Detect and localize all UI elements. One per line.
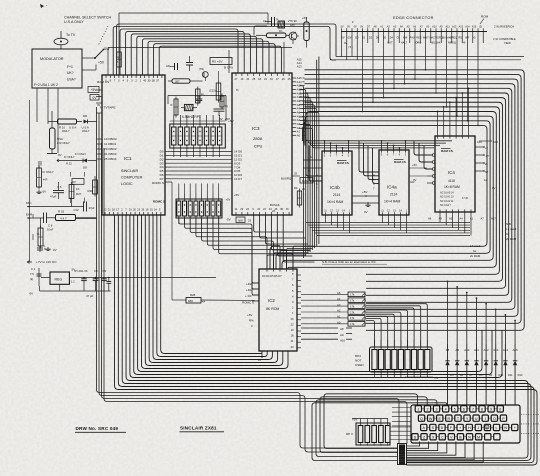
svg-text:A11: A11 (446, 25, 451, 28)
wire RAM top feeds (324, 87, 470, 151)
svg-text:A10: A10 (493, 140, 498, 144)
svg-text:C 8: C 8 (48, 224, 53, 228)
svg-text:A: A (373, 173, 375, 177)
svg-text:29 KBD2: 29 KBD2 (104, 147, 117, 151)
svg-text:WAIT: WAIT (423, 37, 430, 40)
svg-text:1K×8 RAM: 1K×8 RAM (444, 185, 460, 189)
svg-text:H: H (468, 426, 471, 430)
svg-text:R 12: R 12 (66, 162, 72, 166)
crystal label (182, 115, 201, 119)
svg-text:D8: D8 (479, 373, 483, 377)
keyboard outline (411, 405, 520, 443)
IC3 bottom labels (226, 217, 252, 223)
resistor pack RP1 upper (170, 115, 235, 157)
wire IC1 left stubs (96, 90, 115, 113)
svg-text:R%: R% (249, 319, 254, 323)
node staircase labels (297, 57, 302, 68)
svg-text:(k): (k) (30, 277, 33, 281)
svg-text:2 1K COMPATIBLE: 2 1K COMPATIBLE (493, 37, 516, 41)
svg-text:6.5MHZ RP1: 6.5MHZ RP1 (182, 115, 201, 119)
svg-text:A14: A14 (297, 61, 302, 65)
diode D9 (82, 114, 97, 133)
capacitor C5 (75, 269, 89, 291)
svg-text:A4: A4 (337, 297, 341, 301)
svg-text:6: 6 (463, 408, 465, 412)
svg-text:NMI: NMI (403, 37, 408, 40)
svg-text:(C15): (C15) (209, 89, 216, 93)
svg-text:C9: C9 (103, 269, 107, 273)
svg-text:IC4b: IC4b (330, 185, 340, 190)
wire connector drops (342, 35, 484, 126)
wire osc to IC3 (226, 13, 284, 121)
IC2 right pins (297, 275, 301, 348)
svg-text:0V: 0V (53, 248, 57, 252)
svg-text:A5: A5 (449, 217, 453, 221)
wire RP1 verticals (174, 157, 220, 193)
svg-text:A9: A9 (455, 348, 459, 352)
svg-text:IN: IN (97, 103, 100, 107)
resistor R33 (56, 210, 97, 221)
svg-text:4118: 4118 (448, 179, 455, 183)
resistor R28 (186, 293, 205, 303)
transistor Q1 (199, 68, 208, 81)
wire 5V rail (336, 56, 524, 58)
svg-text:R 33: R 33 (58, 210, 64, 214)
svg-text:F+2 USA 1 UK 2: F+2 USA 1 UK 2 (34, 83, 58, 87)
edge connector (340, 16, 487, 49)
svg-text:L: L (496, 426, 498, 430)
svg-text:R9: R9 (294, 186, 298, 190)
svg-text:MREQ: MREQ (450, 37, 457, 40)
svg-text:47 µF: 47 µF (86, 294, 94, 298)
regulator REG (41, 272, 69, 284)
svg-text:REG: REG (55, 278, 63, 282)
svg-text:To TV: To TV (66, 33, 76, 37)
svg-text:11 KBD1: 11 KBD1 (104, 142, 116, 146)
svg-text:NC 16 A0 14: NC 16 A0 14 (440, 192, 454, 195)
svg-text:J: J (477, 426, 479, 430)
svg-text:17k: 17k (350, 293, 355, 297)
svg-text:9V: 9V (347, 25, 350, 28)
wire IC4 left feeds (414, 141, 432, 169)
svg-text:D11: D11 (508, 373, 513, 377)
resistor R27 (69, 179, 84, 202)
node MIC input (26, 201, 84, 207)
svg-text:ONLY: ONLY (82, 129, 90, 133)
wire modulator leads (37, 88, 58, 153)
node A8-A0 labels (301, 327, 352, 342)
svg-text:0V: 0V (364, 210, 368, 214)
svg-text:IC2: IC2 (268, 298, 275, 303)
resistor R1 (168, 79, 203, 84)
node BUSAK (270, 203, 280, 213)
node 5V out (69, 267, 216, 283)
wire control bus staircase (113, 24, 336, 75)
svg-text:U.S.A ONLY: U.S.A ONLY (64, 20, 84, 24)
svg-text:A14: A14 (503, 348, 509, 352)
svg-text:U: U (475, 417, 478, 421)
channel select switch note (64, 16, 112, 47)
svg-text:USA?: USA? (67, 78, 76, 82)
svg-text:D: D (441, 426, 444, 430)
svg-text:RAM CS: RAM CS (337, 161, 349, 165)
crystal X2 (278, 21, 285, 33)
svg-text:10nF: 10nF (47, 228, 54, 232)
capacitor C17 (166, 63, 178, 70)
svg-text:IC4: IC4 (448, 170, 455, 175)
svg-text:NOT: NOT (355, 359, 362, 363)
svg-text:17k: 17k (350, 304, 355, 308)
svg-text:.: . (487, 435, 488, 439)
wire osc link (168, 96, 226, 105)
svg-text:BUSAK: BUSAK (302, 179, 311, 183)
wire kbd top columns (312, 394, 447, 461)
svg-text:0V: 0V (354, 25, 357, 28)
svg-text:R: R (171, 103, 173, 107)
svg-text:17k: 17k (350, 316, 355, 320)
svg-text:RES: RES (416, 37, 421, 40)
capacitor C18 (186, 56, 193, 71)
svg-text:IC4a: IC4a (387, 185, 397, 190)
svg-text:RAM CS: RAM CS (394, 160, 406, 164)
svg-text:17k: 17k (350, 310, 355, 314)
svg-text:C12: C12 (74, 208, 80, 212)
wire diode feeds (447, 280, 516, 344)
svg-text:0V: 0V (360, 25, 363, 28)
wire data bus IC1-IC3 (171, 152, 232, 179)
modulator (32, 49, 82, 88)
svg-text:HI: HI (463, 41, 466, 45)
op-amp IC1 Sinclair Computer Logic (97, 75, 165, 215)
svg-text:8K ROM: 8K ROM (266, 307, 279, 311)
note NB 17 used (506, 222, 517, 241)
svg-text:U S A: U S A (69, 125, 76, 129)
resistor R10 (48, 119, 82, 133)
wire keyboard left feeds (392, 408, 411, 426)
wire RAM bottom bus (304, 212, 472, 258)
svg-text:4 4 7: 4 4 7 (60, 216, 67, 220)
capacitor C9 (101, 269, 107, 291)
svg-text:A14: A14 (465, 25, 470, 28)
svg-text:+D1: +D1 (246, 288, 252, 292)
svg-text:2: 2 (426, 408, 428, 412)
svg-text:IC1: IC1 (124, 156, 132, 162)
svg-text:+ D0: + D0 (245, 294, 252, 298)
svg-text:+D2: +D2 (246, 282, 252, 286)
wire low address to RAM feeds (300, 117, 453, 148)
svg-text:EDGE CONNECTOR: EDGE CONNECTOR (393, 16, 434, 20)
svg-text:+7V to 11V DC: +7V to 11V DC (36, 260, 57, 264)
svg-text:A8: A8 (340, 327, 344, 331)
svg-text:A17: A17 (491, 217, 496, 221)
switch SW1 (82, 47, 110, 70)
svg-text:B CPU: B CPU (224, 66, 233, 70)
svg-text:IC3: IC3 (252, 126, 260, 132)
svg-text:S: S (310, 155, 312, 159)
svg-text:A7: A7 (481, 217, 485, 221)
resistor R29 (88, 176, 98, 197)
resistor R7 (117, 50, 122, 70)
wire IC4a-IC4 links (409, 163, 427, 182)
op-amp IC4b RAM (322, 151, 352, 215)
transistor Q2 (289, 32, 299, 44)
svg-text:A8: A8 (428, 217, 432, 221)
wire long A verticals (317, 57, 319, 113)
svg-text:31 KBD3: 31 KBD3 (104, 152, 117, 156)
coax to TV (54, 31, 76, 49)
svg-text:A15: A15 (472, 25, 477, 28)
svg-text:A13: A13 (459, 25, 464, 28)
svg-text:R½ R11 C6: R½ R11 C6 (75, 269, 89, 273)
resistor pack RP2 not used (355, 340, 439, 380)
IC1 data pins (160, 150, 171, 181)
svg-text:17k: 17k (350, 299, 355, 303)
svg-text:NC 9 A3 7: NC 9 A3 7 (440, 204, 452, 207)
svg-text:D3 D4 D5 D6 D7: D3 D4 D5 D6 D7 (262, 274, 282, 278)
wire keyboard column drops (407, 442, 484, 463)
wire RP3 to keyboard (390, 427, 411, 440)
svg-text:A10: A10 (477, 140, 482, 144)
svg-text:C: C (441, 435, 444, 439)
svg-text:ROMC S: ROMC S (242, 301, 254, 305)
svg-text:F+1: F+1 (67, 65, 73, 69)
svg-text:0V: 0V (413, 178, 417, 182)
svg-text:0V: 0V (492, 186, 496, 190)
svg-text:+5V: +5V (362, 190, 367, 194)
svg-text:4: 4 (445, 408, 447, 412)
wire right bus bundle (270, 70, 524, 330)
svg-text:RP2: RP2 (355, 354, 361, 358)
svg-text:% TVTAPE: % TVTAPE (100, 106, 115, 110)
svg-text:N.B.: N.B. (506, 222, 512, 226)
svg-text:DRW No. SRC 049: DRW No. SRC 049 (76, 426, 119, 431)
svg-text:A8: A8 (446, 348, 450, 352)
IC2 bottom pin (258, 351, 262, 362)
svg-text:0V: 0V (30, 292, 34, 296)
svg-text:D6: D6 (460, 373, 464, 377)
svg-text:A1: A1 (297, 130, 301, 134)
node EAR input (26, 213, 44, 219)
node +5V label (88, 87, 99, 93)
svg-text:+5V: +5V (91, 88, 98, 92)
resistor pack RP3 (346, 418, 390, 446)
svg-text:M: M (477, 435, 480, 439)
svg-text:A9: A9 (439, 217, 443, 221)
svg-text:A5: A5 (337, 291, 341, 295)
node RAM bottom labels (428, 217, 496, 221)
svg-text:NC 15 A1 13: NC 15 A1 13 (440, 196, 454, 199)
svg-text:C 1: C 1 (31, 267, 36, 271)
capacitor C8 (93, 269, 99, 291)
resistor R3 (196, 87, 205, 106)
svg-text:A2: A2 (297, 126, 301, 130)
svg-text:%: % (236, 88, 239, 92)
svg-text:R5 +5V: R5 +5V (212, 60, 223, 64)
wire left links (33, 151, 97, 240)
svg-text:1: 1 (417, 408, 419, 412)
svg-text:0V: 0V (341, 37, 344, 40)
capacitor C16 (263, 17, 279, 26)
svg-text:N: N (504, 426, 507, 430)
svg-text:.: . (496, 435, 497, 439)
svg-text:BUSAK: BUSAK (270, 203, 280, 207)
svg-text:DR: DR (83, 114, 87, 118)
resistor pack RP1 lower (176, 193, 230, 224)
svg-text:O: O (493, 417, 496, 421)
svg-text:BUT: BUT (387, 41, 393, 45)
svg-text:S?: S? (485, 170, 489, 174)
svg-text:A3: A3 (337, 303, 341, 307)
svg-text:Fr ONLY: Fr ONLY (64, 155, 75, 159)
resistor R11 USA only (47, 111, 70, 157)
crystal X1 (181, 104, 197, 110)
svg-text:1K×4 RAM: 1K×4 RAM (327, 200, 344, 204)
keyboard row tails (485, 415, 539, 434)
svg-text:+: + (514, 426, 516, 430)
svg-text:RAM CS: RAM CS (441, 149, 453, 153)
svg-text:A10: A10 (464, 348, 470, 352)
keyboard connector (398, 444, 407, 465)
svg-text:ROMC S: ROMC S (152, 181, 164, 185)
op-amp IC2 ROM (259, 269, 297, 351)
svg-text:267: 267 (175, 79, 180, 83)
title DRW number (75, 426, 126, 432)
svg-text:C1: C1 (263, 19, 267, 23)
svg-text:+5V: +5V (228, 119, 235, 123)
svg-text:+: + (459, 426, 461, 430)
svg-text:R29: R29 (88, 189, 94, 193)
svg-text:-2?: -2? (485, 154, 489, 158)
svg-text:A10: A10 (340, 338, 346, 342)
IC1 ROM CS stub (152, 181, 172, 203)
svg-text:%: % (37, 232, 40, 236)
svg-text:2k RAM: 2k RAM (470, 254, 481, 258)
svg-text:+5V: +5V (352, 418, 357, 422)
capacitor C1 (30, 267, 42, 286)
capacitor C12 (74, 202, 96, 215)
wire kbd column lines (102, 143, 408, 444)
wire ROM CS route (172, 182, 259, 301)
capacitor C6 (50, 182, 64, 199)
svg-text:180: 180 (290, 23, 295, 27)
wire +5V rail 2 (108, 48, 292, 76)
svg-text:43p: 43p (166, 64, 171, 68)
svg-text:D7: D7 (469, 373, 473, 377)
svg-text:10 KBD0: 10 KBD0 (104, 137, 117, 141)
wire rom data staircase (179, 218, 293, 295)
svg-text:A3: A3 (297, 122, 301, 126)
svg-text:for: for (473, 249, 476, 253)
svg-text:Rn: Rn (279, 29, 283, 33)
svg-text:R27: R27 (76, 192, 82, 196)
svg-text:A13: A13 (297, 65, 302, 69)
svg-text:A0: A0 (297, 133, 301, 137)
svg-text:USED: USED (355, 363, 364, 367)
IC3 address stubs (292, 76, 305, 137)
capacitor C13 (44, 213, 56, 232)
svg-text:MODULATOR: MODULATOR (40, 57, 64, 61)
svg-text:(5): (5) (479, 25, 482, 28)
svg-text:A12: A12 (452, 25, 457, 28)
wire psu ground rail (30, 284, 111, 298)
svg-text:(TR): (TR) (199, 68, 204, 71)
capacitor C14 (196, 96, 202, 104)
svg-text:Fr ONLY: Fr ONLY (43, 170, 54, 174)
svg-text:27K 90: 27K 90 (288, 19, 297, 23)
svg-text:+5V: +5V (302, 16, 307, 20)
svg-text:A2: A2 (337, 309, 341, 313)
svg-text:D8: D8 (83, 166, 87, 170)
svg-text:A1: A1 (337, 315, 341, 319)
svg-text:5V: 5V (340, 25, 343, 28)
svg-text:7.5: 7.5 (30, 272, 34, 276)
svg-text:+5V: +5V (98, 61, 105, 65)
resistor R4 (209, 71, 221, 103)
note L2 used for 2k RAM (470, 244, 481, 258)
wire IC4a left feeds (359, 141, 379, 183)
svg-text:0: 0 (499, 408, 501, 412)
svg-text:-5V: -5V (434, 376, 439, 380)
svg-text:NW: NW (238, 219, 243, 223)
svg-text:D5: D5 (450, 373, 454, 377)
node 0V between RAMs (352, 202, 379, 214)
svg-text:A15: A15 (297, 76, 302, 80)
svg-text:# R: # R (43, 178, 47, 182)
node BUSRQ (281, 172, 300, 181)
svg-text:-5V: -5V (226, 218, 231, 222)
svg-text:22: 22 (248, 219, 252, 223)
capacitor C4 (106, 277, 111, 291)
svg-text:25 KBD4: 25 KBD4 (104, 157, 117, 161)
svg-text:A10: A10 (432, 25, 437, 28)
svg-text:W: W (429, 417, 433, 421)
svg-text:Z80A: Z80A (253, 136, 263, 141)
transistor Q1 area (214, 94, 230, 122)
resistor R30 (37, 218, 46, 249)
svg-text:+5V: +5V (226, 198, 231, 202)
svg-text:A4: A4 (297, 118, 301, 122)
svg-text:A0: A0 (337, 321, 341, 325)
svg-text:A4: A4 (460, 217, 464, 221)
svg-text:1K: 1K (76, 187, 80, 191)
wire top rail (119, 13, 268, 75)
svg-text:A14: A14 (297, 80, 302, 84)
svg-text:3: 3 (436, 408, 438, 412)
svg-text:A5: A5 (297, 114, 301, 118)
IC4 right stubs (475, 140, 498, 190)
svg-text:17k: 17k (350, 322, 355, 326)
power input label (27, 260, 57, 264)
svg-text:680: 680 (188, 299, 193, 303)
svg-text:PH0: PH0 (410, 37, 415, 40)
resistor R17 Fr only (36, 161, 53, 194)
resistor R3b (171, 97, 179, 118)
svg-text:RP 3: RP 3 (346, 432, 353, 436)
svg-text:1.2: 1.2 (71, 280, 75, 284)
svg-text:R: R (448, 417, 451, 421)
svg-text:R28: R28 (190, 293, 196, 297)
svg-text:7: 7 (472, 408, 474, 412)
diode D8 Fr only (57, 152, 97, 170)
svg-text:8: 8 (481, 408, 483, 412)
svg-text:+5V: +5V (247, 313, 252, 317)
svg-text:17 20: 17 20 (462, 197, 469, 200)
svg-text:MIC: MIC (26, 201, 32, 205)
svg-text:VIEW: VIEW (504, 41, 511, 45)
svg-text:A: A (316, 173, 318, 177)
svg-text:N: N (468, 435, 471, 439)
op-amp IC3 Z80A CPU (232, 73, 292, 215)
